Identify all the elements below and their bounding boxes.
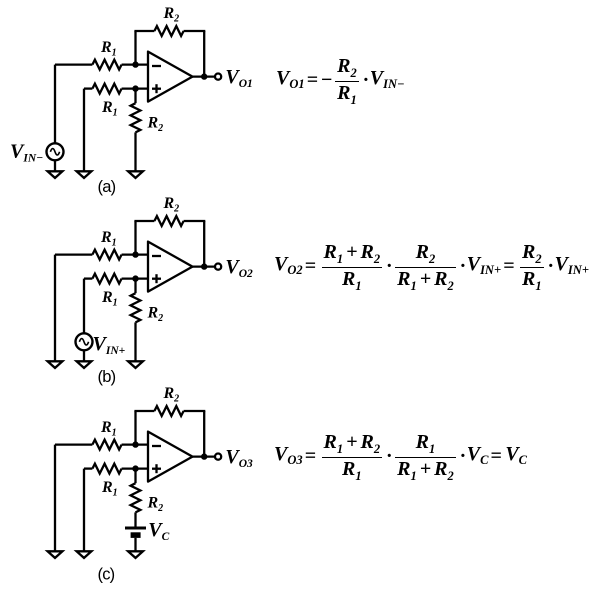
resistor R1 non-inverting	[92, 464, 121, 474]
ground branch2	[77, 171, 92, 178]
wire feedback top	[134, 31, 205, 65]
resistor R2 shunt	[131, 103, 141, 132]
node output	[201, 453, 207, 459]
equation for VO3	[274, 432, 527, 480]
svg-text:VC: VC	[148, 519, 169, 543]
resistor R1 inverting	[92, 60, 121, 70]
wire to inverting input	[55, 443, 148, 445]
wire to non-inverting input	[84, 87, 148, 89]
source VIN+	[76, 333, 93, 350]
wire to non-inverting input	[84, 277, 148, 279]
resistor R2 feedback	[154, 26, 183, 36]
svg-text:VIN−: VIN−	[10, 141, 43, 165]
svg-text:VO1: VO1	[225, 66, 252, 90]
node output	[201, 263, 207, 269]
wire branch1 lower	[54, 160, 56, 172]
node output	[201, 73, 207, 79]
wire branch2	[83, 89, 85, 173]
wire output	[193, 75, 216, 77]
wire feedback right vertical	[203, 221, 205, 267]
resistor R1 non-inverting	[92, 274, 121, 284]
wire R2 to ground	[134, 322, 136, 362]
terminal output	[215, 454, 221, 460]
wire branch1 upper	[54, 65, 56, 144]
node inverting input	[132, 61, 138, 67]
wire to non-inverting input	[84, 467, 148, 469]
svg-text:R2: R2	[163, 5, 180, 25]
svg-text:R1: R1	[100, 39, 117, 59]
wire to inverting input	[55, 63, 148, 65]
svg-text:VO3: VO3	[225, 446, 253, 470]
ground branch3	[128, 551, 143, 558]
wire branch1	[54, 255, 56, 363]
svg-text:R1: R1	[100, 419, 117, 439]
wire battery to ground	[134, 538, 136, 552]
svg-text:R1: R1	[101, 99, 118, 119]
node non-inverting input	[132, 85, 138, 91]
svg-text:R2: R2	[147, 305, 164, 325]
terminal output	[215, 264, 221, 270]
resistor R1 inverting	[92, 440, 121, 450]
equation for VO2	[274, 242, 589, 290]
wire feedback right vertical	[203, 411, 205, 457]
svg-text:R2: R2	[147, 115, 164, 135]
wire node to R2	[134, 279, 136, 294]
svg-text:VIN+: VIN+	[93, 333, 126, 357]
ground branch1	[48, 171, 63, 178]
op-amp U3	[148, 432, 193, 482]
wire branch2 upper	[83, 279, 85, 334]
resistor R1 non-inverting	[92, 84, 121, 94]
wire output	[193, 455, 216, 457]
wire node to R2	[134, 89, 136, 104]
node inverting input	[132, 441, 138, 447]
wire branch2 lower	[83, 350, 85, 362]
wire branch2	[83, 469, 85, 553]
wire feedback top	[134, 221, 205, 255]
resistor R2 feedback	[154, 406, 183, 416]
node inverting input	[132, 251, 138, 257]
svg-text:R2: R2	[163, 195, 180, 215]
ground branch3	[128, 361, 143, 368]
svg-text:R1: R1	[101, 289, 118, 309]
svg-text:R2: R2	[147, 495, 164, 515]
svg-text:(b): (b)	[98, 368, 116, 386]
node non-inverting input	[132, 275, 138, 281]
svg-text:R2: R2	[163, 385, 180, 405]
wire output	[193, 265, 216, 267]
terminal output	[215, 74, 221, 80]
resistor R1 inverting	[92, 250, 121, 260]
wire feedback top	[134, 411, 205, 445]
wire branch1	[54, 445, 56, 553]
svg-text:(c): (c)	[98, 566, 115, 584]
svg-text:R1: R1	[101, 479, 118, 499]
resistor R2 shunt	[131, 293, 141, 322]
ground branch1	[48, 551, 63, 558]
svg-text:VO2: VO2	[225, 256, 253, 280]
ground branch2	[77, 361, 92, 368]
resistor R2 shunt	[131, 483, 141, 512]
wire to inverting input	[55, 253, 148, 255]
op-amp U2	[148, 242, 193, 292]
equation for VO1	[276, 56, 405, 104]
svg-text:(a): (a)	[98, 178, 116, 196]
wire R2 to battery	[134, 512, 136, 526]
ground branch2	[77, 551, 92, 558]
svg-text:R1: R1	[100, 229, 117, 249]
ground branch1	[48, 361, 63, 368]
wire R2 to ground	[134, 132, 136, 172]
node non-inverting input	[132, 465, 138, 471]
wire feedback right vertical	[203, 31, 205, 77]
battery VC	[125, 528, 146, 538]
resistor R2 feedback	[154, 216, 183, 226]
ground branch3	[128, 171, 143, 178]
wire node to R2	[134, 469, 136, 484]
source VIN-	[47, 143, 64, 160]
op-amp U1	[148, 52, 193, 102]
